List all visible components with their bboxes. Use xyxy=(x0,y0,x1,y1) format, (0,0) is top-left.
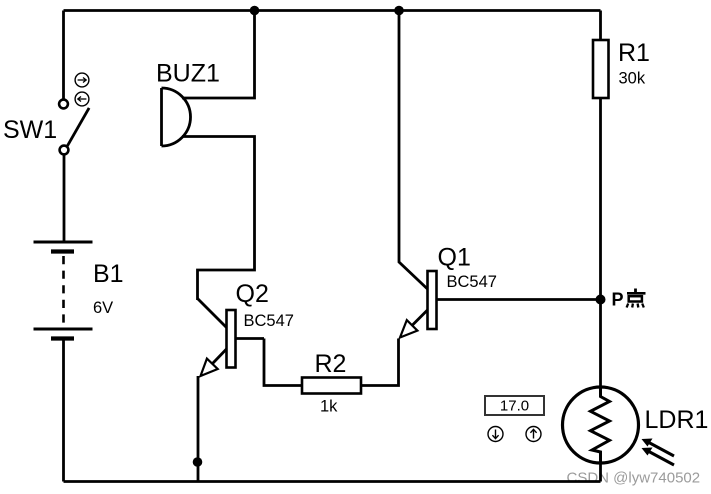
svg-text:BC547: BC547 xyxy=(244,312,294,330)
junction dot above bottom rail on Q2 emitter wire xyxy=(193,457,203,467)
meter down-arrow button xyxy=(488,427,503,442)
svg-text:Q2: Q2 xyxy=(236,280,269,308)
label SW1 xyxy=(3,116,57,144)
value BC547 (Q2) xyxy=(244,312,294,330)
svg-text:6V: 6V xyxy=(93,299,113,317)
label R1 xyxy=(618,39,650,67)
battery B1 xyxy=(34,242,93,339)
label dian (Chinese char of node P, drawn) xyxy=(627,289,646,308)
svg-text:BUZ1: BUZ1 xyxy=(156,60,220,88)
watermark xyxy=(567,470,701,487)
wire LDR1 to bottom rail xyxy=(599,461,602,482)
svg-text:LDR1: LDR1 xyxy=(645,406,709,434)
wire buzzer bottom terminal to Q2 collector xyxy=(182,137,255,301)
wire bottom rail xyxy=(64,480,601,483)
transistor Q2 xyxy=(198,299,265,377)
svg-text:30k: 30k xyxy=(619,70,646,88)
wire top rail to R1 xyxy=(599,11,602,41)
label P (node P) xyxy=(612,290,624,310)
svg-text:R1: R1 xyxy=(618,39,650,67)
LDR1 light arrow upper xyxy=(642,439,675,457)
buzzer BUZ1 xyxy=(162,88,191,146)
svg-text:17.0: 17.0 xyxy=(500,398,529,415)
junction dot on top rail (buzzer branch) xyxy=(250,6,260,16)
wire Q2 base to R2 left xyxy=(264,339,302,386)
svg-text:P: P xyxy=(612,290,624,310)
junction dot on top rail (Q1 branch) xyxy=(394,6,404,16)
svg-text:R2: R2 xyxy=(315,350,347,378)
svg-text:BC547: BC547 xyxy=(447,273,497,291)
resistor R1 xyxy=(593,40,609,98)
label LDR1 xyxy=(645,406,709,434)
wire R1 to node P xyxy=(599,98,602,300)
wire buzzer top terminal to top rail xyxy=(182,11,255,99)
switch SW1 action button right-arrow xyxy=(75,73,89,87)
label BUZ1 xyxy=(156,60,220,88)
LDR1 light arrow lower xyxy=(642,448,675,466)
value 30k xyxy=(619,70,646,88)
label B1 xyxy=(93,260,124,288)
wire top rail xyxy=(64,9,601,12)
meter display box 17.0 xyxy=(485,396,544,415)
svg-text:B1: B1 xyxy=(93,260,124,288)
wire Q1 collector to top rail xyxy=(399,11,428,290)
wire node P to LDR1 xyxy=(599,300,602,391)
svg-text:Q1: Q1 xyxy=(438,244,471,272)
LDR1 xyxy=(563,387,639,463)
value BC547 (Q1) xyxy=(447,273,497,291)
value 6V xyxy=(93,299,113,317)
wire left rail upper (top rail to SW1) xyxy=(62,11,65,101)
meter up-arrow button xyxy=(526,427,541,442)
value 1k xyxy=(320,398,338,416)
switch SW1 xyxy=(59,100,89,243)
wire R2 right to Q1 emitter xyxy=(361,339,399,386)
svg-text:1k: 1k xyxy=(320,398,338,416)
label Q1 xyxy=(438,244,471,272)
label R2 xyxy=(315,350,347,378)
label Q2 xyxy=(236,280,269,308)
transistor Q1 xyxy=(400,271,601,338)
svg-text:CSDN @lyw740502: CSDN @lyw740502 xyxy=(567,470,701,487)
switch SW1 action button left-arrow xyxy=(75,92,89,106)
node P junction dot xyxy=(596,295,606,305)
svg-text:SW1: SW1 xyxy=(3,116,57,144)
resistor R2 xyxy=(302,378,361,394)
wire Q2 emitter to bottom rail xyxy=(197,376,200,482)
wire left rail lower (battery to bottom rail) xyxy=(62,340,65,482)
